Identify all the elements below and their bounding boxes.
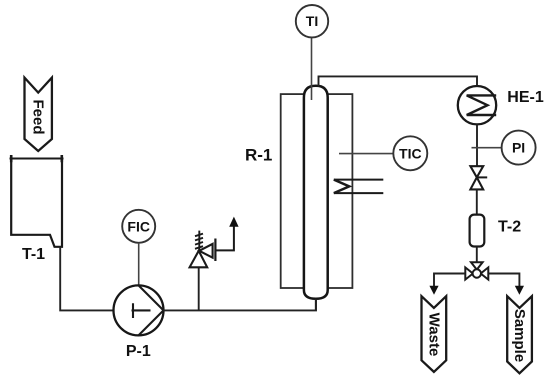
vessel T-2 bbox=[470, 215, 485, 247]
wire to waste bbox=[434, 274, 465, 287]
svg-text:P-1: P-1 bbox=[126, 343, 151, 360]
instrument FIC bbox=[122, 210, 155, 243]
wire tank outlet to pump bbox=[60, 247, 113, 311]
svg-text:Waste: Waste bbox=[425, 313, 442, 357]
svg-text:TI: TI bbox=[306, 13, 318, 29]
svg-text:Sample: Sample bbox=[511, 309, 528, 362]
relief valve right triangle bbox=[199, 244, 212, 258]
waste banner bbox=[422, 296, 447, 372]
svg-text:PI: PI bbox=[512, 140, 525, 156]
relief valve flange line bbox=[214, 239, 216, 262]
tank T-1 rim bbox=[10, 155, 64, 162]
wire HE-1 to valve bbox=[476, 124, 478, 166]
sample banner bbox=[507, 296, 532, 373]
reactor jacket bbox=[281, 94, 353, 288]
wire TIC probe bbox=[339, 153, 393, 155]
svg-text:Feed: Feed bbox=[30, 99, 47, 134]
relief valve spring bbox=[195, 231, 203, 251]
wire reactor bottom stub bbox=[315, 299, 317, 311]
wire T-2 to 3-way valve bbox=[476, 247, 478, 263]
svg-text:R-1: R-1 bbox=[245, 146, 272, 165]
vent line bbox=[215, 227, 234, 251]
svg-text:T-2: T-2 bbox=[498, 219, 521, 236]
waste arrow bbox=[429, 286, 438, 295]
wire valve to T-2 bbox=[476, 190, 478, 215]
heater element bbox=[334, 180, 384, 194]
heat exchanger HE-1 bbox=[458, 86, 496, 124]
svg-text:FIC: FIC bbox=[127, 218, 150, 234]
feed banner bbox=[25, 78, 52, 151]
wire PI connector bbox=[472, 147, 502, 149]
valve V-1 bbox=[470, 166, 487, 189]
wire pump to reactor bottom bbox=[164, 298, 317, 311]
wire FIC to pump bbox=[138, 243, 140, 286]
relief valve bottom triangle bbox=[190, 251, 208, 267]
pump P-1 bbox=[114, 285, 164, 335]
sample arrow bbox=[515, 286, 524, 295]
relief valve stem bbox=[198, 268, 200, 311]
wire TI probe bbox=[311, 38, 313, 100]
instrument PI bbox=[502, 131, 536, 165]
svg-text:TIC: TIC bbox=[399, 145, 422, 161]
reactor tube R-1 bbox=[304, 86, 328, 299]
wire to sample bbox=[488, 274, 519, 287]
tank T-1 body bbox=[11, 159, 62, 247]
svg-text:T-1: T-1 bbox=[22, 246, 45, 263]
svg-text:HE-1: HE-1 bbox=[507, 89, 544, 106]
instrument TI bbox=[296, 5, 328, 37]
instrument TIC bbox=[393, 136, 427, 170]
wire reactor top to HE-1 bbox=[319, 76, 478, 86]
three-way valve bbox=[465, 262, 488, 279]
vent arrow bbox=[229, 217, 238, 227]
